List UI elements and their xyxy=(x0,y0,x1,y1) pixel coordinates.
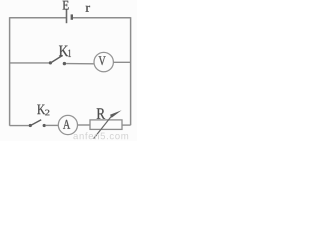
wire bottom-left segment xyxy=(10,125,29,127)
rheostat arrow head xyxy=(110,110,122,118)
battery short thick plate xyxy=(71,14,73,19)
wire voltmeter to right xyxy=(113,61,130,63)
ammeter A letter xyxy=(63,120,70,129)
label K1 xyxy=(59,46,68,57)
label r xyxy=(86,6,90,12)
rheostat R box xyxy=(90,120,122,129)
wire middle-left segment xyxy=(10,62,50,64)
voltmeter V circle xyxy=(94,52,113,71)
wire top-left segment xyxy=(10,17,66,19)
ammeter A circle xyxy=(58,115,77,134)
voltmeter V letter xyxy=(99,56,106,65)
wire ammeter to rheostat xyxy=(78,124,90,126)
switch K1 xyxy=(49,55,66,65)
label R xyxy=(97,108,105,118)
switch K2 xyxy=(29,120,46,127)
wire K1 to voltmeter xyxy=(66,63,94,65)
label E xyxy=(63,1,69,10)
battery E,r : long plate xyxy=(66,9,68,23)
wire left vertical xyxy=(9,17,11,126)
wire K2 to ammeter xyxy=(46,124,59,126)
watermark xyxy=(73,132,128,139)
wire top-right segment xyxy=(72,17,130,19)
wire rheostat to right xyxy=(122,124,131,126)
wire right vertical xyxy=(130,17,132,125)
label K2 xyxy=(37,105,45,114)
rheostat arrow shaft xyxy=(94,115,113,139)
